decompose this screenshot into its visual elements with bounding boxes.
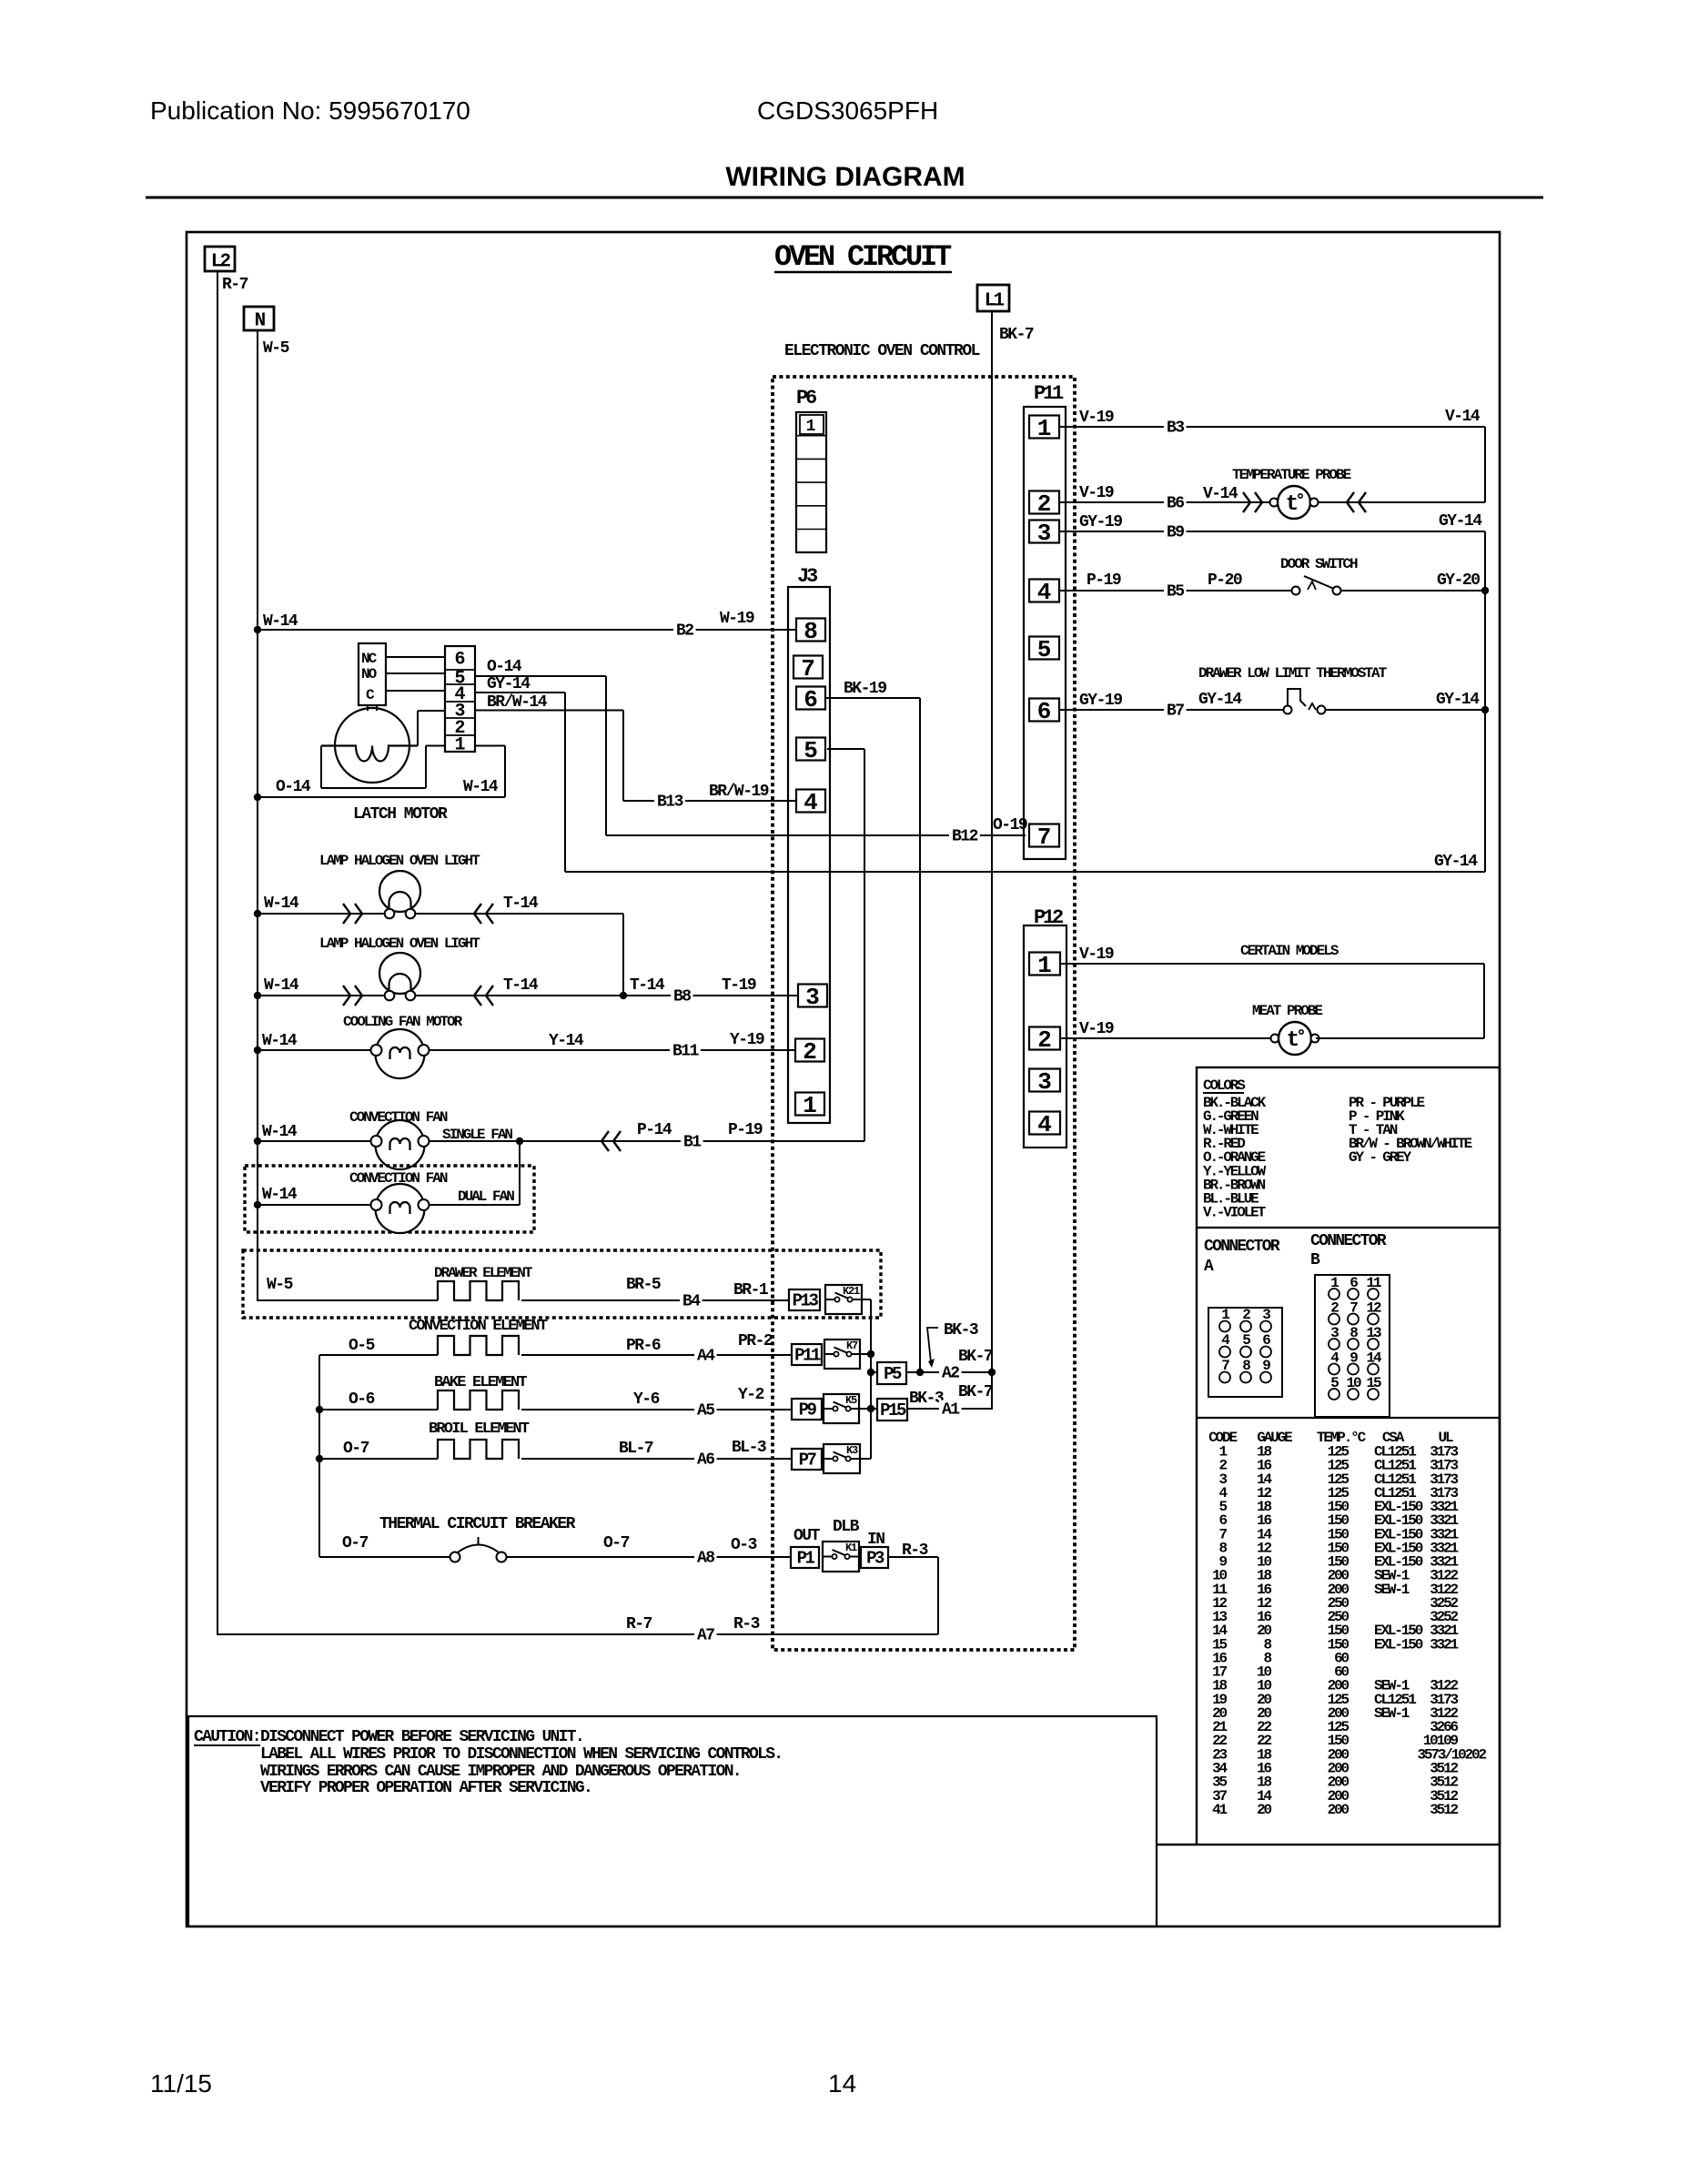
svg-text:Y-6: Y-6 — [633, 1390, 660, 1409]
svg-text:2: 2 — [1037, 1026, 1052, 1054]
junction single/dual fan — [516, 1137, 523, 1145]
door switch — [1292, 576, 1341, 595]
junction W-14 single fan — [254, 1137, 261, 1145]
svg-text:2: 2 — [1037, 490, 1052, 518]
wire K7 to bus — [860, 1353, 871, 1355]
svg-text:BR/W-14: BR/W-14 — [487, 693, 548, 712]
broil element resistor — [438, 1440, 519, 1459]
junction K5 output — [867, 1405, 874, 1412]
svg-text:t: t — [1287, 1028, 1299, 1053]
connector B pin diagram — [1315, 1275, 1390, 1417]
svg-text:GY - GREY: GY - GREY — [1349, 1149, 1412, 1166]
svg-text:t: t — [1286, 492, 1299, 517]
svg-text:TEMPERATURE PROBE: TEMPERATURE PROBE — [1232, 467, 1351, 483]
svg-text:O-19: O-19 — [993, 816, 1027, 834]
connector P11 — [1024, 382, 1066, 859]
svg-text:PR-2: PR-2 — [738, 1332, 773, 1350]
svg-text:P-19: P-19 — [728, 1121, 763, 1139]
svg-text:L1: L1 — [985, 291, 1005, 312]
svg-text:DISCONNECT POWER BEFORE SERVIC: DISCONNECT POWER BEFORE SERVICING UNIT. — [260, 1728, 583, 1746]
svg-text:1: 1 — [806, 418, 816, 436]
connector A pin diagram — [1208, 1307, 1282, 1397]
wire V-19 certain models — [1060, 945, 1484, 1038]
svg-text:O-7: O-7 — [603, 1534, 630, 1552]
wire O-14/W-14 pin 1 to N line — [258, 746, 505, 798]
page header — [150, 96, 965, 192]
wire O-7 broil element — [319, 1440, 438, 1459]
svg-text:200: 200 — [1328, 1802, 1349, 1818]
svg-text:K7: K7 — [846, 1340, 858, 1352]
temperature probe — [1270, 499, 1279, 507]
svg-text:W-14: W-14 — [262, 1032, 298, 1050]
connector P11 relay input — [792, 1344, 822, 1365]
svg-text:O-14: O-14 — [487, 658, 522, 676]
label CONNECTOR A — [1204, 1238, 1280, 1276]
svg-text:P11: P11 — [1034, 382, 1064, 405]
svg-text:Y-19: Y-19 — [730, 1031, 764, 1049]
svg-text:SEW-1: SEW-1 — [1374, 1705, 1410, 1722]
connector J3 — [788, 565, 830, 1123]
outer border — [187, 232, 1500, 1926]
svg-text:K1: K1 — [845, 1542, 857, 1554]
wire R-3 from P3 down to A7 row — [888, 1542, 938, 1634]
svg-text:O-7: O-7 — [343, 1440, 369, 1458]
wire B13 BR/W-19 to J3 pin 4 — [623, 783, 796, 812]
svg-text:14: 14 — [828, 2069, 856, 2098]
svg-text:O-5: O-5 — [349, 1337, 375, 1355]
svg-text:T-14: T-14 — [503, 976, 539, 995]
P11 pin 4 — [1029, 579, 1059, 606]
svg-text:CONVECTION ELEMENT: CONVECTION ELEMENT — [409, 1318, 548, 1335]
connector P5 — [871, 1362, 906, 1384]
svg-text:WIRING DIAGRAM: WIRING DIAGRAM — [725, 162, 965, 192]
svg-text:GY-20: GY-20 — [1437, 571, 1480, 590]
connector P7 — [792, 1449, 822, 1470]
P12 pin 2 — [1029, 1026, 1060, 1054]
P11 pin 5 — [1029, 636, 1059, 663]
svg-text:SINGLE FAN: SINGLE FAN — [442, 1127, 512, 1143]
svg-text:VERIFY PROPER OPERATION AFTER: VERIFY PROPER OPERATION AFTER SERVICING. — [260, 1779, 591, 1797]
svg-text:ELECTRONIC OVEN CONTROL: ELECTRONIC OVEN CONTROL — [784, 342, 980, 360]
svg-text:A6: A6 — [697, 1451, 714, 1470]
connector P13 — [789, 1289, 820, 1310]
relay output bus — [870, 1299, 872, 1459]
svg-text:BR/W-19: BR/W-19 — [709, 783, 769, 801]
svg-text:T-14: T-14 — [503, 895, 539, 913]
element supply bus — [318, 1355, 320, 1557]
wire GY-14 vertical right bus — [1484, 531, 1486, 872]
svg-text:COOLING FAN MOTOR: COOLING FAN MOTOR — [343, 1014, 463, 1030]
wire B3 V-19/V-14 — [1059, 408, 1485, 502]
drawer element dashed enclosure — [243, 1250, 881, 1318]
legend bottom extension — [1157, 1844, 1197, 1845]
wire O-7/A8/O-3 to P1 — [506, 1534, 791, 1568]
svg-text:A1: A1 — [942, 1401, 960, 1420]
svg-text:W-14: W-14 — [264, 895, 299, 913]
svg-text:P13: P13 — [793, 1291, 819, 1311]
svg-text:Y-2: Y-2 — [738, 1386, 764, 1404]
svg-text:W-14: W-14 — [262, 1123, 298, 1141]
junction W-14 dual fan — [254, 1201, 261, 1208]
bake element resistor — [438, 1390, 519, 1410]
svg-text:O-3: O-3 — [731, 1536, 757, 1554]
drawer element resistor — [438, 1281, 519, 1300]
P11 pin 2 — [1029, 490, 1059, 518]
wire NC to pin 6 — [386, 656, 445, 658]
J3 pin 1 — [795, 1092, 824, 1119]
svg-text:V-19: V-19 — [1079, 484, 1114, 502]
J3 pin 7 — [793, 655, 823, 682]
svg-text:B1: B1 — [683, 1134, 702, 1152]
svg-text:K21: K21 — [843, 1285, 860, 1298]
svg-text:CERTAIN MODELS: CERTAIN MODELS — [1240, 943, 1339, 959]
wire latch winding return to pin 1 — [321, 746, 445, 789]
svg-text:CGDS3065PFH: CGDS3065PFH — [757, 96, 938, 125]
junction BK-19 at P5 output — [916, 1369, 924, 1376]
svg-text:GY-19: GY-19 — [1079, 513, 1122, 531]
svg-text:BK-7: BK-7 — [958, 1348, 993, 1366]
wire B9 GY-19/GY-14 — [1059, 512, 1485, 542]
svg-text:A5: A5 — [697, 1402, 714, 1421]
svg-text:NO: NO — [361, 666, 378, 682]
svg-text:5: 5 — [1037, 636, 1052, 663]
label CONNECTOR B — [1310, 1232, 1387, 1269]
svg-text:P5: P5 — [884, 1364, 902, 1384]
svg-text:BAKE ELEMENT: BAKE ELEMENT — [434, 1374, 527, 1391]
wire B5 P-19/P-20 to door switch — [1059, 571, 1292, 602]
junction GY-20 — [1481, 587, 1489, 594]
svg-text:O-7: O-7 — [342, 1534, 369, 1552]
svg-text:DUAL FAN: DUAL FAN — [458, 1188, 514, 1205]
svg-text:O-14: O-14 — [276, 778, 311, 796]
wire convection single fan row B1/P-19 — [258, 1121, 864, 1152]
svg-text:BR-1: BR-1 — [733, 1281, 769, 1299]
svg-text:A8: A8 — [697, 1550, 714, 1568]
wire O-14 pin 5 to J3 pin 7 row (B12) — [475, 658, 606, 835]
label BK-3 with leader — [927, 1321, 978, 1368]
svg-text:B11: B11 — [672, 1043, 700, 1061]
legend box frame — [1197, 1067, 1500, 1845]
svg-text:SEW-1: SEW-1 — [1374, 1582, 1410, 1598]
wire cooling fan row — [258, 1031, 795, 1061]
wire O-7 to breaker — [319, 1534, 450, 1557]
svg-text:BL-3: BL-3 — [732, 1439, 766, 1457]
svg-text:O-6: O-6 — [349, 1390, 375, 1409]
svg-text:V-19: V-19 — [1079, 409, 1114, 427]
svg-text:6: 6 — [1037, 698, 1052, 725]
wire BR-5/B4/BR-1 to P13 — [521, 1276, 789, 1311]
wire W-5 drawer element row — [258, 1276, 438, 1300]
svg-text:P1: P1 — [797, 1549, 815, 1569]
wire A1 BK-7 — [907, 1383, 993, 1420]
wire GY-14 pin 4 down to GY-14 bus — [475, 675, 565, 872]
svg-text:GY-14: GY-14 — [1436, 691, 1480, 709]
svg-text:B2: B2 — [676, 622, 693, 641]
wire O-6 bake element — [319, 1390, 438, 1410]
P11 pin 7 — [1029, 824, 1059, 851]
svg-text:OUT: OUT — [793, 1527, 821, 1545]
svg-text:W-19: W-19 — [720, 610, 754, 628]
connector P3 — [861, 1547, 888, 1568]
svg-text:V-19: V-19 — [1079, 945, 1114, 964]
svg-text:P9: P9 — [799, 1400, 817, 1421]
svg-text:LABEL ALL WIRES PRIOR TO DISCO: LABEL ALL WIRES PRIOR TO DISCONNECTION W… — [260, 1745, 782, 1764]
svg-text:B5: B5 — [1167, 583, 1184, 602]
svg-text:K5: K5 — [845, 1394, 857, 1407]
svg-text:PR-6: PR-6 — [626, 1337, 661, 1355]
connector P1 — [791, 1547, 819, 1568]
node L1 — [977, 285, 1009, 312]
svg-text:B13: B13 — [657, 794, 683, 812]
junction broil element — [316, 1455, 323, 1462]
svg-text:W-14: W-14 — [264, 976, 299, 995]
P11 pin 1 — [1029, 415, 1059, 442]
svg-text:DOOR SWITCH: DOOR SWITCH — [1280, 556, 1358, 572]
svg-text:P3: P3 — [866, 1549, 884, 1569]
svg-text:V-19: V-19 — [1079, 1020, 1114, 1038]
wire A2 BK-7 — [906, 1348, 993, 1383]
thermal circuit breaker — [450, 1537, 507, 1562]
svg-text:P6: P6 — [796, 387, 816, 409]
junction GY-14 thermostat — [1481, 706, 1489, 713]
legend separator colors/connector — [1197, 1227, 1500, 1228]
wire K3 to bus — [860, 1458, 871, 1460]
cooling fan motor — [376, 1029, 425, 1078]
svg-text:W-14: W-14 — [263, 612, 298, 631]
caution box — [188, 1716, 1157, 1926]
svg-text:GY-14: GY-14 — [1439, 512, 1482, 531]
wire B6 V-19/V-14 to temperature probe — [1059, 484, 1269, 513]
svg-text:B6: B6 — [1167, 495, 1184, 513]
lamp halogen oven light 1 — [258, 871, 623, 924]
wire B12 O-19 to P11 pin 7 — [606, 816, 1027, 846]
svg-text:1: 1 — [1037, 415, 1052, 442]
svg-text:11/15: 11/15 — [150, 2069, 212, 2098]
J3 pin 8 — [796, 618, 825, 645]
svg-text:EXL-150: EXL-150 — [1374, 1636, 1423, 1653]
svg-text:1: 1 — [803, 1092, 817, 1119]
relay K21 — [825, 1285, 862, 1314]
electronic oven control dashed enclosure — [773, 377, 1075, 1650]
svg-text:R-3: R-3 — [733, 1615, 760, 1633]
convection fan single — [376, 1120, 425, 1169]
convection fan dual — [376, 1184, 425, 1233]
svg-text:LAMP HALOGEN OVEN LIGHT: LAMP HALOGEN OVEN LIGHT — [319, 853, 480, 869]
svg-text:R-7: R-7 — [626, 1615, 652, 1633]
P12 pin 1 — [1029, 952, 1060, 979]
svg-text:GY-14: GY-14 — [487, 675, 531, 693]
P11 pin 3 — [1029, 520, 1059, 547]
wire lamp1 T-14 down to lamp2 row — [622, 914, 624, 996]
wire NO to pin 5 — [386, 672, 445, 674]
svg-text:7: 7 — [801, 655, 815, 682]
svg-text:R-3: R-3 — [902, 1542, 928, 1560]
relay K7 — [824, 1340, 860, 1369]
svg-text:41: 41 — [1212, 1802, 1227, 1818]
node L2 — [205, 247, 235, 273]
svg-text:P11: P11 — [794, 1346, 821, 1366]
svg-text:B3: B3 — [1167, 420, 1184, 438]
svg-text:L2: L2 — [211, 252, 231, 273]
wire R-7 vertical from L2 — [217, 271, 218, 1635]
relay K5 — [824, 1394, 859, 1423]
wire B7 GY-19/GY-14 to thermostat — [1059, 691, 1284, 721]
wire C to pin 4 — [386, 690, 445, 692]
svg-text:LAMP HALOGEN OVEN LIGHT: LAMP HALOGEN OVEN LIGHT — [319, 935, 480, 952]
connector P9 — [792, 1399, 822, 1420]
wire R-7/A7/R-3 row — [217, 1615, 938, 1645]
svg-text:MEAT PROBE: MEAT PROBE — [1252, 1003, 1322, 1019]
colors legend — [1203, 1077, 1472, 1220]
svg-text:J3: J3 — [797, 565, 818, 588]
svg-text:B9: B9 — [1167, 524, 1184, 542]
svg-text:W-14: W-14 — [463, 778, 499, 796]
svg-text:3: 3 — [805, 984, 820, 1011]
svg-text:DRAWER LOW LIMIT THERMOSTAT: DRAWER LOW LIMIT THERMOSTAT — [1198, 665, 1388, 682]
svg-text:K3: K3 — [846, 1444, 858, 1457]
svg-text:DRAWER ELEMENT: DRAWER ELEMENT — [434, 1265, 533, 1281]
wire W-5 vertical from N — [257, 329, 258, 1301]
svg-text:P-20: P-20 — [1208, 571, 1242, 590]
svg-text:W-5: W-5 — [263, 339, 289, 358]
svg-text:COLORS: COLORS — [1203, 1077, 1246, 1094]
svg-text:BROIL ELEMENT: BROIL ELEMENT — [429, 1421, 530, 1438]
svg-text:7: 7 — [1037, 824, 1052, 851]
svg-text:BK-3: BK-3 — [944, 1321, 978, 1340]
svg-text:BK-7: BK-7 — [958, 1383, 993, 1401]
svg-text:A2: A2 — [942, 1365, 959, 1383]
junction W-14 at N line — [254, 626, 261, 633]
svg-text:CONNECTOR: CONNECTOR — [1310, 1232, 1387, 1250]
wire K5 to bus — [859, 1408, 871, 1410]
wire K21 to bus — [862, 1299, 871, 1300]
svg-text:4: 4 — [804, 789, 818, 816]
wire latch winding to pin 3 — [418, 711, 445, 746]
wire GY-14 bus — [565, 853, 1485, 872]
svg-text:B7: B7 — [1167, 703, 1184, 721]
svg-text:2: 2 — [803, 1038, 817, 1066]
latch motor pin header 6-1 — [445, 646, 475, 756]
svg-text:3: 3 — [1037, 520, 1052, 547]
svg-text:B12: B12 — [952, 828, 978, 846]
wire code table — [1208, 1430, 1486, 1818]
latch motor relay NC/NO/C box — [359, 643, 386, 705]
svg-text:6: 6 — [804, 686, 818, 713]
svg-text:Publication No: 5995670170: Publication No: 5995670170 — [150, 96, 470, 125]
svg-text:CAUTION:: CAUTION: — [194, 1728, 260, 1746]
svg-text:NC: NC — [361, 651, 378, 667]
J3 pin 2 — [795, 1038, 824, 1066]
J3 pin 3 — [798, 984, 827, 1011]
svg-text:GY-19: GY-19 — [1079, 692, 1122, 710]
svg-text:BL-7: BL-7 — [619, 1440, 653, 1458]
svg-text:W-5: W-5 — [267, 1276, 293, 1294]
svg-text:6: 6 — [454, 650, 465, 671]
svg-text:CONNECTOR: CONNECTOR — [1204, 1238, 1280, 1256]
svg-text:A4: A4 — [697, 1348, 715, 1366]
wire GY-20 door switch to bus — [1340, 571, 1485, 591]
svg-text:V.-VIOLET: V.-VIOLET — [1203, 1204, 1267, 1220]
J3 pin 5 — [796, 737, 825, 764]
meat probe — [1271, 1035, 1279, 1043]
svg-text:1: 1 — [454, 735, 465, 756]
wire O-5 convection element — [319, 1337, 438, 1355]
wire BR/W-14 pin 3 to B13 — [475, 693, 623, 801]
svg-text:4: 4 — [1037, 1111, 1052, 1138]
svg-text:GY-14: GY-14 — [1434, 853, 1478, 871]
svg-text:3321: 3321 — [1430, 1636, 1458, 1653]
junction P5 tap — [867, 1369, 874, 1376]
svg-text:DLB: DLB — [833, 1518, 860, 1536]
svg-text:R-7: R-7 — [222, 276, 248, 294]
P12 pin 4 — [1029, 1111, 1060, 1138]
svg-text:V-14: V-14 — [1445, 408, 1481, 426]
svg-text:P7: P7 — [799, 1451, 817, 1471]
svg-text:THERMAL CIRCUIT BREAKER: THERMAL CIRCUIT BREAKER — [379, 1515, 576, 1533]
junction O-14 at N line — [254, 794, 261, 801]
svg-text:1: 1 — [1037, 952, 1052, 979]
wire PR-6/A4/PR-2 to P11 — [521, 1332, 792, 1366]
wire BK-19 from J3 pin 6 — [825, 680, 920, 1372]
svg-text:T-14: T-14 — [630, 976, 665, 995]
J3 pin 6 — [796, 686, 825, 713]
svg-text:B4: B4 — [682, 1293, 701, 1311]
svg-text:T-19: T-19 — [722, 976, 756, 995]
junction T-14 lamp join — [620, 992, 627, 999]
svg-text:P-19: P-19 — [1087, 571, 1121, 590]
svg-text:WIRINGS ERRORS CAN CAUSE IMPRO: WIRINGS ERRORS CAN CAUSE IMPROPER AND DA… — [260, 1763, 741, 1781]
wire V-19 to meat probe — [1060, 1020, 1274, 1038]
header rule — [146, 197, 1543, 199]
svg-text:8: 8 — [804, 618, 818, 645]
svg-text:V-14: V-14 — [1203, 485, 1238, 503]
svg-text:20: 20 — [1257, 1802, 1271, 1818]
legend separator connector/code — [1197, 1417, 1500, 1419]
wire dual fan row — [258, 1141, 520, 1205]
svg-text:Y-14: Y-14 — [549, 1032, 584, 1050]
wire BK-7 vertical from L1 — [991, 311, 993, 1410]
P12 pin 3 — [1029, 1068, 1060, 1096]
svg-text:BK-3: BK-3 — [909, 1390, 944, 1408]
svg-text:GY-14: GY-14 — [1198, 691, 1242, 709]
wire B1 up to J3 pin 5 — [827, 749, 864, 1141]
svg-text:BK-19: BK-19 — [844, 680, 886, 698]
junction W-14 lamp1 — [254, 910, 261, 917]
svg-text:3512: 3512 — [1430, 1802, 1458, 1818]
svg-text:P-14: P-14 — [637, 1121, 672, 1139]
footer — [150, 2069, 856, 2098]
svg-text:W-14: W-14 — [262, 1186, 298, 1204]
svg-text:OVEN CIRCUIT: OVEN CIRCUIT — [774, 240, 952, 274]
junction K7 output — [867, 1350, 874, 1358]
latch motor — [321, 705, 418, 783]
junction BK-7 at A2 — [988, 1369, 996, 1376]
P11 pin 6 — [1029, 698, 1059, 725]
connector P15 — [871, 1390, 944, 1421]
lamp halogen oven light 2 — [258, 953, 798, 1006]
convection element resistor — [438, 1336, 519, 1355]
J3 pin 4 — [796, 789, 825, 816]
junction W-14 lamp2 — [254, 992, 261, 999]
wire GY-14 thermostat to bus — [1325, 691, 1485, 710]
svg-text:LATCH MOTOR: LATCH MOTOR — [353, 805, 448, 824]
svg-text:BR-5: BR-5 — [626, 1276, 661, 1294]
connector P6 — [796, 387, 826, 552]
svg-text:B8: B8 — [673, 988, 691, 1006]
wire B2 W-14/W-19 — [258, 610, 796, 641]
wire temperature probe return — [1319, 492, 1485, 512]
wire BL-7/A6/BL-3 to P7 — [521, 1439, 792, 1470]
